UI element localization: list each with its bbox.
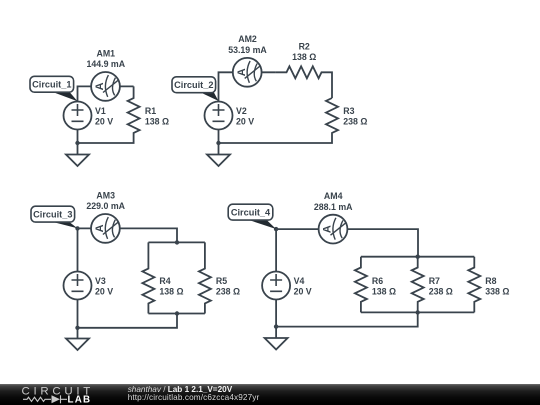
svg-text:138 Ω: 138 Ω xyxy=(372,287,396,297)
svg-text:138 Ω: 138 Ω xyxy=(145,117,169,127)
svg-text:R4: R4 xyxy=(159,276,170,286)
svg-text:AM4: AM4 xyxy=(324,191,343,201)
svg-text:20 V: 20 V xyxy=(236,117,254,127)
svg-text:288.1 mA: 288.1 mA xyxy=(314,202,353,212)
svg-text:AM1: AM1 xyxy=(97,48,116,58)
svg-text:20 V: 20 V xyxy=(294,287,312,297)
svg-text:V2: V2 xyxy=(236,106,247,116)
svg-text:R1: R1 xyxy=(145,106,156,116)
svg-text:A: A xyxy=(94,82,106,90)
svg-text:338 Ω: 338 Ω xyxy=(485,287,509,297)
svg-text:V4: V4 xyxy=(294,276,305,286)
svg-text:V1: V1 xyxy=(95,106,106,116)
svg-text:144.9 mA: 144.9 mA xyxy=(87,59,126,69)
svg-text:138 Ω: 138 Ω xyxy=(159,287,183,297)
svg-text:238 Ω: 238 Ω xyxy=(429,287,453,297)
svg-text:AM3: AM3 xyxy=(96,190,115,200)
svg-text:AM2: AM2 xyxy=(238,34,257,44)
svg-text:LAB: LAB xyxy=(67,395,91,405)
svg-text:229.0 mA: 229.0 mA xyxy=(86,201,125,211)
svg-text:R3: R3 xyxy=(343,106,354,116)
svg-text:238 Ω: 238 Ω xyxy=(216,287,240,297)
svg-text:20 V: 20 V xyxy=(95,117,113,127)
svg-text:A: A xyxy=(94,224,106,232)
svg-text:R6: R6 xyxy=(372,276,383,286)
svg-text:238 Ω: 238 Ω xyxy=(343,117,367,127)
svg-text:A: A xyxy=(322,225,334,233)
svg-text:138 Ω: 138 Ω xyxy=(292,52,316,62)
svg-text:R7: R7 xyxy=(429,276,440,286)
svg-text:53.19 mA: 53.19 mA xyxy=(228,45,267,55)
svg-text:R2: R2 xyxy=(299,41,310,51)
svg-text:Circuit_1: Circuit_1 xyxy=(32,80,71,90)
svg-text:A: A xyxy=(236,68,248,76)
svg-text:V3: V3 xyxy=(95,276,106,286)
svg-text:R8: R8 xyxy=(485,276,496,286)
svg-text:Circuit_2: Circuit_2 xyxy=(174,80,213,90)
svg-text:R5: R5 xyxy=(216,276,227,286)
svg-text:Circuit_4: Circuit_4 xyxy=(231,207,271,217)
svg-text:20 V: 20 V xyxy=(95,287,113,297)
svg-text:Circuit_3: Circuit_3 xyxy=(33,209,72,219)
